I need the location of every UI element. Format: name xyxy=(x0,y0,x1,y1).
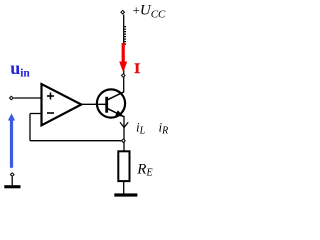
node on collector wire (open diamond) xyxy=(122,74,126,78)
transistor emitter arrow xyxy=(115,110,124,116)
wire resistor to ground xyxy=(123,181,125,194)
wire to + input xyxy=(14,97,42,99)
lower terminal node (open diamond) xyxy=(10,173,14,177)
wire feedback vertical xyxy=(29,114,31,141)
input voltage arrow u_in (blue) xyxy=(8,113,15,167)
resistor RE xyxy=(118,151,129,181)
op-amp U1 xyxy=(42,84,82,125)
wire op-amp output to base xyxy=(81,103,107,105)
node +UCC terminal (open diamond) xyxy=(121,10,125,14)
transistor base bar xyxy=(105,97,108,113)
transistor emitter lead xyxy=(107,108,125,117)
current direction marker iL (open arrowhead) xyxy=(120,122,128,127)
svg-text:I: I xyxy=(134,61,140,77)
wire minus input xyxy=(30,113,42,115)
current arrow I (red) xyxy=(119,43,127,73)
junction node (open diamond) xyxy=(122,139,126,143)
wire dashed tick segment xyxy=(124,26,126,45)
op-amp plus marking xyxy=(47,93,54,100)
op-amp minus marking xyxy=(47,112,54,114)
transistor Q1 circle xyxy=(97,89,125,117)
wire feedback horizontal xyxy=(30,140,124,142)
ground (right) xyxy=(114,193,137,196)
wire collector to +UCC rail xyxy=(123,15,125,92)
ground (left) xyxy=(4,185,20,188)
transistor collector lead xyxy=(107,92,124,100)
input terminal node (open diamond) xyxy=(10,96,14,100)
wire emitter down xyxy=(123,117,125,152)
wire to ground (left) xyxy=(11,177,13,186)
